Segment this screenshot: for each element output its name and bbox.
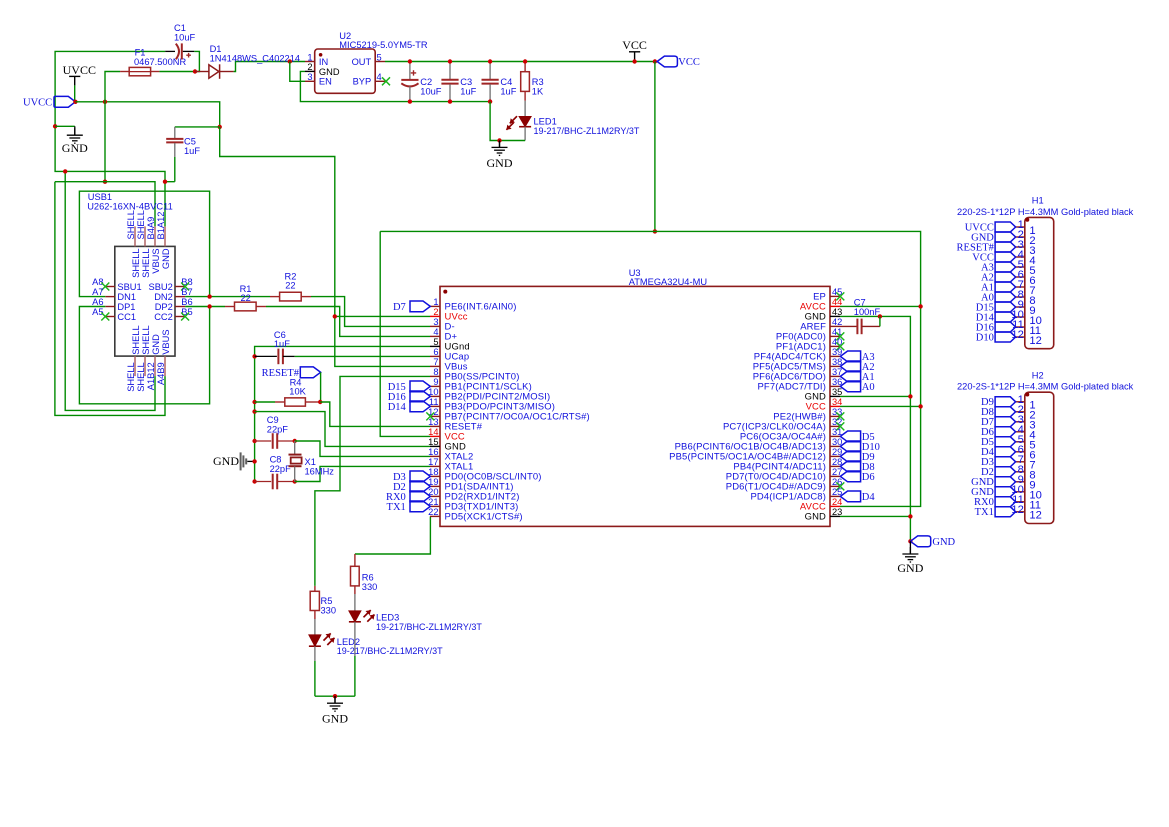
wire GND pin35 [840, 395, 910, 397]
resistor R5 bottom lead [314, 611, 316, 620]
junction C3 top [448, 59, 452, 63]
capacitor C7 [857, 319, 861, 335]
capacitor C2 bottom pin [409, 86, 411, 101]
capacitor C9 [273, 433, 278, 449]
capacitor C7 right lead [862, 325, 880, 327]
svg-text:B4A9: B4A9 [146, 217, 156, 240]
svg-text:TX1: TX1 [387, 502, 406, 513]
wire R2 to D- [311, 297, 430, 327]
U3 pin 35 stub [830, 395, 840, 397]
junction R4 right [318, 400, 322, 404]
svg-text:5: 5 [377, 52, 382, 62]
USB1 right pin B6 stub [175, 306, 185, 308]
wire DN loop [79, 191, 209, 296]
no-connect U3 pin 26 [836, 482, 844, 490]
capacitor C6 [278, 349, 283, 365]
junction C9 left [252, 439, 256, 443]
resistor R3 bottom lead [524, 91, 526, 100]
ground GND3 [902, 547, 918, 562]
svg-text:SHELL: SHELL [141, 325, 151, 354]
U3 pin 12 stub [430, 415, 440, 417]
USB1 left pin A6 stub [105, 306, 115, 308]
USB1 left pin A7 stub [105, 296, 115, 298]
capacitor C1 [176, 43, 191, 59]
svg-text:A6: A6 [92, 297, 103, 307]
svg-text:MIC5219-5.0YM5-TR: MIC5219-5.0YM5-TR [339, 40, 428, 50]
junction C7 gnd [878, 314, 882, 318]
junction C6 left [252, 354, 256, 358]
svg-text:TX1: TX1 [975, 507, 994, 518]
svg-text:GND: GND [151, 334, 161, 355]
svg-text:VCC: VCC [678, 57, 700, 68]
svg-text:22pF: 22pF [267, 424, 289, 434]
junction C9 right [293, 439, 297, 443]
wire LED2 to gnd rail [314, 661, 316, 696]
svg-text:5: 5 [433, 337, 438, 347]
led LED2 bottom pin [314, 646, 316, 661]
H1 pin 10 stub [1016, 316, 1025, 318]
svg-text:1K: 1K [532, 86, 544, 96]
resistor R6 top lead [354, 554, 356, 566]
resistor R5 [310, 591, 319, 610]
svg-text:16: 16 [428, 447, 438, 457]
U3 pin 42 stub [830, 325, 840, 327]
wire R4 left [255, 401, 275, 403]
U3 pin 2 stub [430, 315, 440, 317]
netflag GND bottom-right [910, 536, 955, 548]
junction GND row15 [252, 409, 256, 413]
resistor R5 top lead [314, 586, 316, 591]
junction F1-D1-C1 [193, 69, 197, 73]
netflag RESET# [262, 367, 321, 379]
H2 pin 9 stub [1016, 481, 1025, 483]
svg-text:1: 1 [307, 52, 312, 62]
H2 pin 8 flag D2 [995, 467, 1016, 477]
H1 pin 1 flag UVCC [995, 222, 1016, 232]
junction VCC drop [653, 59, 657, 63]
USB1 top pin B4A9 stub [154, 226, 156, 246]
H1 pin 5 flag A3 [995, 262, 1016, 272]
svg-text:UVCC: UVCC [63, 63, 96, 77]
wire XTAL1 jog [295, 466, 430, 481]
diode D1 anode lead [195, 71, 209, 73]
svg-text:19-217/BHC-ZL1M2RY/3T: 19-217/BHC-ZL1M2RY/3T [376, 622, 482, 632]
H1 pin 5 stub [1016, 266, 1025, 268]
H2 pin 6 stub [1016, 451, 1025, 453]
U3 pin 29 stub [830, 455, 840, 457]
H2 pin 9 flag GND [995, 477, 1016, 487]
H1 pin 2 stub [1016, 236, 1025, 238]
resistor R3 top lead [524, 62, 526, 72]
U3 pin 5 stub [430, 345, 440, 347]
svg-text:A1B12: A1B12 [146, 362, 156, 390]
H1 pin 10 flag D14 [995, 312, 1016, 322]
junction DN2 [207, 294, 211, 298]
resistor R6 [351, 566, 360, 586]
junction C2 top [408, 59, 412, 63]
svg-text:12: 12 [1011, 329, 1023, 341]
H2 pin 7 flag D3 [995, 457, 1016, 467]
wire LED gnd rail [315, 695, 355, 697]
USB1 right pin B8 stub [175, 286, 185, 288]
svg-text:12: 12 [1011, 504, 1023, 516]
wire AVCC pin44 [840, 305, 921, 307]
junction GND-symbol node [53, 124, 57, 128]
U3 pin 25 stub [830, 495, 840, 497]
U3 pin 23 stub [830, 515, 840, 517]
svg-text:DN2: DN2 [154, 292, 173, 302]
junction UVCC-F1 column [103, 100, 107, 104]
H1 pin 11 stub [1016, 326, 1025, 328]
resistor R4 [285, 398, 306, 406]
wire UVCC to F1 [105, 72, 120, 182]
no-connect U3 pin 40 [836, 342, 844, 350]
fuse F1 right lead [151, 71, 160, 73]
svg-text:GND: GND [932, 537, 955, 548]
capacitor C3 bottom pin [449, 84, 451, 101]
U3 pin 45 stub [830, 295, 840, 297]
resistor R4 left lead [275, 401, 285, 403]
netflag TX1 [387, 501, 431, 513]
junction GND side flag [252, 459, 256, 463]
netflag VCC [657, 56, 700, 68]
capacitor C2 top pin [409, 62, 411, 80]
wire PD5 to R6 [355, 516, 431, 554]
svg-text:220-2S-1*12P H=4.3MM Gold-plat: 220-2S-1*12P H=4.3MM Gold-plated black [957, 207, 1134, 217]
no-connect U3 pin 45 [836, 292, 844, 300]
svg-text:8: 8 [433, 367, 438, 377]
U3 pin 20 stub [430, 495, 440, 497]
resistor R3 [521, 72, 530, 92]
capacitor C7 left lead [840, 325, 857, 327]
svg-text:BYP: BYP [353, 77, 372, 87]
wire VCC to pin14 [380, 231, 430, 436]
U3 pin 22 stub [430, 515, 440, 517]
U3 pin 39 stub [830, 355, 840, 357]
H1 pin 3 flag RESET# [995, 242, 1016, 252]
wire UVCC flag stem [74, 85, 76, 101]
H1 pin 6 stub [1016, 276, 1025, 278]
USB1 left pin A5 stub [105, 316, 115, 318]
netflag D5 [840, 431, 874, 443]
svg-text:34: 34 [832, 397, 842, 407]
netflag D8 [840, 461, 874, 473]
led LED1 bottom pin [524, 127, 526, 141]
resistor R1 [235, 302, 257, 311]
wire PB0 to R5 [315, 376, 430, 586]
resistor R6 bottom lead [354, 586, 356, 594]
svg-text:220-2S-1*12P H=4.3MM Gold-plat: 220-2S-1*12P H=4.3MM Gold-plated black [957, 382, 1134, 392]
H2 pin 11 stub [1016, 501, 1025, 503]
U3 pin 38 stub [830, 365, 840, 367]
svg-text:SHELL: SHELL [131, 248, 141, 277]
svg-text:A8: A8 [92, 277, 103, 287]
wire UVcc pin2 row [335, 315, 430, 317]
U3 pin 32 stub [830, 425, 840, 427]
svg-text:4: 4 [377, 72, 382, 82]
no-connect U3 pin 32 [836, 422, 844, 430]
capacitor C9 right pin [277, 440, 295, 442]
USB1 bottom pin A4B9 stub [164, 356, 166, 376]
wire D1 to U2 IN [234, 62, 305, 72]
ground GND1 [67, 128, 83, 143]
wire U2 OUT rail [385, 61, 657, 63]
svg-text:D14: D14 [388, 402, 407, 413]
junction LED1 GND [497, 138, 501, 142]
svg-text:SBU1: SBU1 [117, 282, 141, 292]
svg-text:2: 2 [433, 307, 438, 317]
U2 pin1 marker [319, 53, 323, 57]
ground GND3 stem [909, 541, 911, 554]
crystal X1 bottom pin [294, 466, 296, 481]
svg-text:330: 330 [362, 582, 378, 592]
wire GND symbol stub [55, 125, 75, 127]
netflag D2 [393, 481, 430, 493]
U3 pin 7 stub [430, 365, 440, 367]
wire VCC flag stem [634, 60, 636, 63]
H2 pin 1 stub [1016, 401, 1025, 403]
crystal X1 [289, 455, 302, 467]
netflag D4 [840, 491, 875, 503]
U3 pin 27 stub [830, 475, 840, 477]
capacitor C2 [401, 70, 418, 86]
H2 pin 2 flag D8 [995, 407, 1016, 417]
U2 pin 2 GND stub [305, 70, 315, 72]
svg-text:14: 14 [428, 427, 438, 437]
svg-text:0467.500NR: 0467.500NR [134, 57, 186, 67]
resistor R1 right lead [256, 306, 266, 308]
svg-text:GND: GND [213, 454, 239, 468]
H1 pin 1 stub [1016, 226, 1025, 228]
svg-text:22: 22 [241, 293, 251, 303]
U3 pin 21 stub [430, 505, 440, 507]
no-connect U2 BYP [382, 77, 390, 85]
capacitor C1 left pin [165, 50, 175, 52]
svg-text:10uF: 10uF [420, 86, 442, 96]
resistor R2 right lead [301, 296, 311, 298]
svg-text:6: 6 [433, 347, 438, 357]
netflag RX0 [386, 491, 430, 503]
H2 pin 8 stub [1016, 471, 1025, 473]
svg-text:B1A12: B1A12 [156, 212, 166, 240]
U3 pin 8 stub [430, 375, 440, 377]
capacitor C9 left pin [255, 440, 272, 442]
svg-text:22pF: 22pF [270, 464, 292, 474]
svg-text:IN: IN [319, 57, 328, 67]
svg-text:3: 3 [433, 317, 438, 327]
mcu U3 body [440, 286, 830, 526]
svg-text:B7: B7 [181, 287, 192, 297]
svg-text:GND: GND [161, 248, 171, 269]
capacitor C6 left pin [255, 355, 277, 357]
USB1 left pin A8 stub [105, 286, 115, 288]
junction C4 bottom [488, 99, 492, 103]
capacitor C1 right pin [183, 50, 195, 52]
junction C5 top [218, 125, 222, 129]
svg-text:23: 23 [832, 507, 842, 517]
USB1 top pin SHELL stub [134, 226, 136, 246]
netflag D15 [388, 381, 431, 393]
capacitor C8 left pin [255, 481, 272, 483]
svg-text:GND: GND [487, 156, 513, 170]
svg-text:16MHz: 16MHz [305, 467, 335, 477]
capacitor C5 bottom pin [174, 143, 176, 157]
junction VCC pin34 [918, 404, 922, 408]
ground GND4 [327, 696, 343, 711]
svg-text:17: 17 [428, 457, 438, 467]
wire RESET flag drop [320, 372, 322, 402]
ground GND1 stem [74, 126, 76, 135]
GND side flag stub [247, 460, 254, 462]
svg-text:SHELL: SHELL [126, 210, 136, 239]
U3 pin 10 stub [430, 395, 440, 397]
U3 pin 36 stub [830, 385, 840, 387]
ground GND4 stem [334, 696, 336, 703]
svg-text:H2: H2 [1032, 370, 1044, 380]
wire RESET to pin13 [320, 402, 430, 426]
netflag A0 [840, 381, 874, 393]
H2 pin 3 stub [1016, 421, 1025, 423]
wire DP loop [79, 307, 209, 404]
fuse F1 left lead [120, 71, 129, 73]
U3 pin 13 stub [430, 425, 440, 427]
U3 pin 30 stub [830, 445, 840, 447]
resistor R4 right lead [305, 401, 320, 403]
U3 pin 34 stub [830, 405, 840, 407]
capacitor C4 bottom pin [489, 84, 491, 101]
ground GND2 stem [499, 141, 501, 148]
svg-text:A4B9: A4B9 [156, 362, 166, 385]
junction UVCC flag [73, 100, 77, 104]
led LED1 [506, 116, 531, 130]
H1 pin 9 flag D15 [995, 302, 1016, 312]
H1 pin 8 flag A0 [995, 292, 1016, 302]
junction C2 bottom [408, 99, 412, 103]
svg-text:1uF: 1uF [274, 339, 290, 349]
wire F1 to D1 node [159, 71, 195, 73]
wire C1 to node [194, 51, 199, 71]
U3 pin 33 stub [830, 415, 840, 417]
wire C7 up [879, 316, 881, 326]
svg-text:C1: C1 [174, 23, 186, 33]
led LED2 top pin [314, 619, 316, 635]
H1 pin 6 flag A2 [995, 272, 1016, 282]
svg-text:44: 44 [832, 297, 842, 307]
svg-text:CC1: CC1 [117, 312, 136, 322]
junction GND wireA left [63, 169, 67, 173]
H2 pin1 marker [1025, 393, 1029, 397]
capacitor C3 top pin [449, 62, 451, 80]
op-amp U2 body [315, 49, 376, 93]
diode D1 [209, 64, 220, 79]
netflag D9 [840, 451, 874, 463]
svg-text:12: 12 [1029, 510, 1041, 522]
svg-text:1: 1 [433, 297, 438, 307]
wire LED3 to gnd rail [354, 656, 356, 696]
netflag D14 [388, 401, 431, 413]
svg-text:H1: H1 [1032, 196, 1044, 206]
no-connect USB1 A5 [101, 313, 109, 321]
svg-text:GND: GND [805, 512, 826, 523]
wire GND pin43 [840, 316, 910, 541]
U3 pin 1 stub [430, 305, 440, 307]
svg-text:ATMEGA32U4-MU: ATMEGA32U4-MU [629, 277, 707, 287]
fuse F1 [129, 67, 150, 75]
junction R4 left [252, 400, 256, 404]
H1 pin 11 flag D16 [995, 322, 1016, 332]
no-connect U3 pin 41 [836, 332, 844, 340]
junction UVCC wireB [103, 180, 107, 184]
wire C5 top lead [175, 126, 220, 128]
H1 pin 4 stub [1016, 256, 1025, 258]
junction GND top-pin node [163, 180, 167, 184]
svg-text:DP1: DP1 [117, 302, 135, 312]
junction GND pin35 [908, 394, 912, 398]
wire GND bottom of caps [490, 102, 525, 141]
svg-text:SHELL: SHELL [136, 362, 146, 391]
svg-text:A7: A7 [92, 287, 103, 297]
junction LED gnd [333, 694, 337, 698]
H2 pin 10 stub [1016, 491, 1025, 493]
U3 pin 31 stub [830, 435, 840, 437]
H2 pin 4 stub [1016, 431, 1025, 433]
H1 pin 12 flag D10 [995, 332, 1016, 342]
svg-text:D4: D4 [862, 492, 876, 503]
netflag UVCC [54, 96, 75, 107]
wire GND left loop to USB bottom [65, 171, 155, 410]
svg-text:UVCC: UVCC [23, 97, 52, 108]
led LED3 bottom pin [354, 622, 356, 656]
U3 pin 44 stub [830, 305, 840, 307]
H2 pin 12 stub [1016, 511, 1025, 513]
no-connect U3 pin 12 [426, 412, 434, 420]
junction VCC rail [653, 229, 657, 233]
junction GND flag BR [908, 539, 912, 543]
U3 pin 18 stub [430, 475, 440, 477]
connector H2 body [1025, 392, 1054, 523]
wire R1 to D+ [266, 307, 430, 337]
svg-text:SHELL: SHELL [136, 210, 146, 239]
led LED3 [349, 610, 375, 622]
resistor R2 left lead [270, 296, 280, 298]
U3 pin 4 stub [430, 335, 440, 337]
H2 pin 7 stub [1016, 461, 1025, 463]
svg-text:VBUS: VBUS [151, 248, 161, 273]
junction AVCC pin44 [918, 304, 922, 308]
wire DN2 to R2 [185, 296, 270, 298]
svg-text:SHELL: SHELL [131, 325, 141, 354]
wire XTAL2 jog [295, 441, 430, 456]
junction UVcc pin2 [333, 314, 337, 318]
svg-text:2: 2 [307, 62, 312, 72]
H2 pin 3 flag D7 [995, 417, 1016, 427]
U2 pin 3 EN stub [305, 80, 315, 82]
connector H1 body [1025, 217, 1054, 348]
junction VCC powerflag [632, 59, 636, 63]
USB1 top pin B1A12 stub [164, 226, 166, 246]
capacitor C3 [441, 80, 458, 84]
wire VBUS row B [55, 182, 155, 227]
svg-text:A5: A5 [92, 307, 103, 317]
wire U2 GND to rail [300, 71, 490, 101]
svg-text:VCC: VCC [622, 38, 647, 52]
diode D1 cathode lead [220, 71, 234, 73]
svg-text:19-217/BHC-ZL1M2RY/3T: 19-217/BHC-ZL1M2RY/3T [337, 646, 443, 656]
capacitor C5 [166, 139, 183, 143]
U2 pin 1 IN stub [305, 61, 315, 63]
svg-text:D7: D7 [393, 302, 406, 313]
U3 pin 11 stub [430, 405, 440, 407]
